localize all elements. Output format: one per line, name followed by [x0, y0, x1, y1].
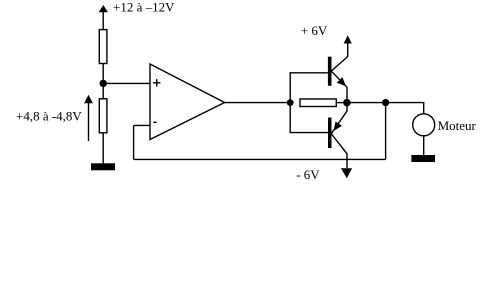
op-amp minus sign: [153, 121, 156, 123]
node A: [287, 99, 294, 106]
op-amp U1: [150, 64, 225, 140]
wire to op-amp + input: [103, 82, 150, 84]
transistor Q1 base bar: [328, 57, 332, 86]
wire: op-amp output: [225, 102, 291, 104]
svg-text:+4,8 à -4,8V: +4,8 à -4,8V: [16, 108, 82, 123]
ground (left): [91, 163, 115, 170]
Q1 collector: [332, 43, 348, 71]
resistor R3: [300, 99, 336, 107]
wire to motor: [386, 103, 424, 114]
resistor R1: [99, 30, 107, 64]
op-amp plus sign: [153, 79, 160, 86]
wire: feedback up to output node: [385, 103, 387, 160]
node C: [382, 99, 389, 106]
motor M: [413, 114, 435, 136]
resistor R2: [99, 99, 107, 133]
Q1 emitter: [332, 71, 348, 102]
supply arrow +12/-12V: [99, 5, 108, 30]
svg-text:Moteur: Moteur: [438, 118, 477, 133]
node B: [343, 99, 351, 107]
node: divider midpoint: [100, 80, 107, 87]
ground (motor): [411, 155, 435, 162]
supply arrow +6V: [344, 35, 352, 43]
wire: feedback down: [133, 125, 135, 159]
wire to Q2 base: [290, 103, 328, 133]
svg-text:+12 à –12V: +12 à –12V: [113, 0, 175, 15]
wire: - input stub: [134, 124, 150, 126]
Q2 emitter: [332, 103, 348, 134]
wire: [102, 64, 104, 84]
wire: [102, 83, 104, 98]
Q2 emitter arrowhead: [334, 122, 343, 132]
wire motor to ground: [423, 136, 425, 155]
Q2 collector: [332, 134, 348, 168]
supply arrow -6V: [341, 168, 352, 178]
wire node B to node C: [347, 102, 386, 104]
wire: [336, 102, 347, 104]
Q1 emitter arrowhead: [337, 77, 346, 86]
transistor Q2 base bar: [328, 118, 332, 149]
wire: [102, 133, 104, 164]
annotation arrow +4,8/-4,8V: [84, 95, 93, 141]
svg-text:- 6V: - 6V: [296, 167, 320, 182]
svg-text:+ 6V: + 6V: [301, 23, 328, 38]
wire to Q1 base: [290, 73, 328, 103]
wire: feedback bottom run: [134, 158, 386, 160]
